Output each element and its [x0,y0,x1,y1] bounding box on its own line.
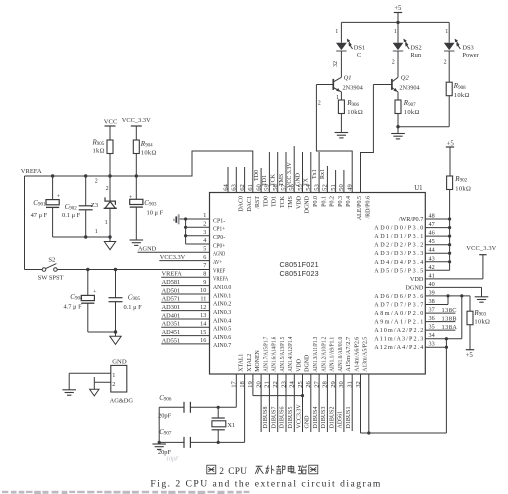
wire stub pin 64 [227,167,229,193]
svg-text:AIN1.5/A13/P1.5: AIN1.5/A13/P1.5 [280,337,286,372]
U1 pin 38 AD7/D7/P3.7 [374,298,434,309]
U1 pin 26 AIN1.3/A11/P1.3 [305,337,319,388]
svg-text:AIN0.6: AIN0.6 [213,334,231,341]
ground under GND pin2 [90,389,99,396]
node VCC_3.3V pin 41 VDD [425,245,496,279]
svg-text:46: 46 [429,230,435,237]
svg-text:AD571: AD571 [162,296,181,303]
svg-text:VCC3.3V: VCC3.3V [160,254,186,261]
svg-text:4.7 μ F: 4.7 μ F [64,303,83,310]
svg-text:DAC1: DAC1 [247,196,253,212]
svg-text:DS3: DS3 [462,45,473,52]
wire data bus pins 48-42 with pull-up bus [425,189,451,270]
wire Q2 base to ALE stub [361,85,392,193]
svg-text:GND: GND [112,359,127,366]
svg-text:U1: U1 [414,185,422,192]
caption figure title English [150,478,381,489]
U1 pin 44 AD3/D3/P3.3 [374,247,434,258]
U1 pin 3 CP0- [203,229,225,241]
svg-text:2: 2 [95,178,98,184]
resistor R908 10k [446,82,469,127]
resistor R906 10k [336,92,363,133]
power VCC [104,119,118,141]
svg-text:Tx1: Tx1 [312,169,318,179]
svg-text:D1BUS3: D1BUS3 [321,406,327,428]
svg-text:AG&DG: AG&DG [110,398,134,405]
U1 pin 41 VDD [410,272,435,283]
wire bottom rail C901-Z3 [53,235,112,238]
svg-text:1: 1 [394,29,397,35]
svg-text:11: 11 [200,296,206,303]
svg-text:DGND: DGND [305,195,311,213]
svg-text:AN10.0: AN10.0 [213,284,231,291]
svg-text:VCC 3.3V: VCC 3.3V [287,162,293,188]
svg-text:AGND: AGND [138,246,157,253]
svg-text:10kΩ: 10kΩ [474,319,490,326]
wire XTAL2 net horizontal [158,441,245,444]
svg-text:CP0+: CP0+ [213,242,226,249]
svg-text:SW SPST: SW SPST [38,274,64,281]
node D1BUS5 pin 23 [286,374,294,432]
U1 pin 31 A14m/A6/P2.6 [347,337,361,388]
decorative faint showthrough text [166,456,179,462]
node VCC 3.3V pin 56 [287,146,294,193]
svg-text:47: 47 [429,221,435,228]
node AD351 pin 14 [161,321,209,328]
U1 pin 56 VDD [289,184,303,209]
U1 pin 55 DGND [297,184,311,214]
svg-text:VCC_3.3V: VCC_3.3V [122,117,151,124]
svg-text:Power: Power [462,52,479,59]
U1 pin 20 AIN1.7/A15/P1.7 [255,337,269,388]
node AD301 pin 12 [161,304,209,311]
node VREFA pin 8 [161,271,209,278]
svg-text:45: 45 [429,238,435,245]
U1 pin 32 A13m/A5/P2.5 [355,337,369,388]
svg-text:Q2: Q2 [401,75,410,82]
svg-text:10kΩ: 10kΩ [347,109,363,116]
svg-text:P0.2: P0.2 [330,196,336,207]
svg-text:P0.1: P0.1 [321,196,327,207]
svg-text:40: 40 [429,281,435,288]
wire pin 18 XTAL2 to crystal [244,374,246,442]
svg-text:AD551: AD551 [162,337,181,344]
wire DS1 to Q1 [333,51,341,77]
wire pin 33 junction [425,339,448,433]
svg-text:1: 1 [95,229,98,235]
U1 pin 17 XTAL1 [231,354,245,388]
node AD401 pin 13 [161,312,209,319]
svg-text:CP1+: CP1+ [213,226,226,233]
LED DS1 C [335,22,365,59]
svg-text:15: 15 [200,329,206,336]
svg-text:35: 35 [429,324,435,331]
svg-text:ALE/P0.5: ALE/P0.5 [357,196,363,220]
svg-text:AIN1.7/A15/P1.7: AIN1.7/A15/P1.7 [263,337,269,372]
capacitor C901 47uF [31,176,61,237]
svg-text:2: 2 [112,381,115,388]
svg-text:32: 32 [333,61,339,67]
U1 pin 54 P0.0 [305,184,319,207]
svg-text:C: C [357,52,361,59]
U1 pin 1 CP1- [203,212,225,224]
svg-text:GND: GND [305,415,311,429]
svg-text:CP1-: CP1- [213,217,225,224]
wire pin 17 XTAL1 to crystal [235,374,237,407]
svg-text:2: 2 [106,186,109,192]
svg-text:+: + [57,193,61,200]
svg-text:0.1 μ F: 0.1 μ F [62,212,81,219]
svg-text:AIN1.1/A9/P1.1: AIN1.1/A9/P1.1 [330,337,336,372]
U1 pin 21 AIN1.6/A14/P1.6 [264,337,278,388]
ground under GND pin1 [62,390,76,395]
transducer symbol on CP1- [173,214,185,224]
U1 pin 30 A15m/A7/2.7 [338,337,352,388]
svg-text:D1BUS6: D1BUS6 [280,406,286,428]
svg-text:AIN0.5: AIN0.5 [213,326,231,333]
svg-text:48: 48 [429,213,435,220]
wire stub pin 63 [235,167,237,193]
svg-text:36: 36 [429,315,435,322]
resistor R907 10k [395,92,420,134]
node D1BUS4 pin 26 [311,374,319,432]
svg-text:VDD: VDD [296,195,302,209]
U1 pin 23 AIN1.4/A12/P1.4 [280,337,294,388]
svg-text:8: 8 [203,271,206,278]
wire comparator bus pins 1-4 [184,217,210,244]
svg-text:VDD: VDD [297,358,303,372]
U1 pin 7 VREF [203,262,225,274]
wire pin 34 up to DGND net [425,296,462,340]
node GND pin 55 [295,152,302,193]
U1 pin 27 AIN1.2/A10/P1.2 [313,337,327,388]
U1 pin 60 TD0 [255,184,269,207]
svg-text:2N3904: 2N3904 [343,85,364,92]
svg-text:13: 13 [200,312,206,319]
svg-text:42: 42 [429,264,435,271]
ground below C905 [110,332,121,344]
wire VREF net to pin 7 [57,268,209,271]
U1 pin 15 AIN0.6 [200,329,231,341]
U1 pin 50 P0.4 [338,184,352,207]
svg-text:Z3: Z3 [91,202,99,209]
svg-text:AIN0.4: AIN0.4 [213,317,231,324]
U1 pin 57 TMS [280,184,294,209]
svg-text:TD1: TD1 [272,196,278,207]
power +5 LED rail [394,5,402,22]
svg-text:C8051F023: C8051F023 [280,269,319,278]
node AGND pin 5 [138,246,210,253]
svg-text:4: 4 [203,237,206,244]
node 138B pin 36 [425,315,457,322]
svg-text:AIN0.3: AIN0.3 [213,309,231,316]
U1 pin 24 VDD [289,358,303,388]
node VREFA label [21,168,42,175]
U1 pin 37 A8m/A0/P2.0 [374,307,434,318]
svg-text:AD401: AD401 [162,312,181,319]
svg-text:DS2: DS2 [410,45,421,52]
decorative cut-off text row at page bottom [2,491,249,494]
svg-text:A10m/A2/P2.2: A10m/A2/P2.2 [374,328,423,334]
U1 pin 29 AIN1.0/A8/01.0 [330,337,344,388]
node TCK pin 58 [271,152,278,193]
svg-text:/WR/P0.7: /WR/P0.7 [399,216,424,223]
svg-text:10pF: 10pF [166,456,179,462]
wire bottom stub to 433 rail [367,374,370,435]
LED DS2 Run [393,22,422,59]
svg-text:2: 2 [203,221,206,228]
node VCC3.3V pin 6 [159,254,209,261]
svg-text:TD0: TD0 [263,196,269,207]
U1 pin 4 CP0+ [203,237,225,249]
power +5 below R903 [466,325,475,360]
node D1BUS3 pin 27 [319,374,327,432]
svg-text:VDD: VDD [410,276,424,283]
node TD1 pin 59 [262,152,269,193]
svg-text:AGND: AGND [213,251,226,258]
svg-text:7: 7 [203,262,206,269]
svg-text:A11m/A3/P2.3: A11m/A3/P2.3 [374,337,423,343]
svg-text:1: 1 [445,29,448,35]
wire RST route to pin 61 [136,151,253,193]
ground below C903 [130,240,144,245]
svg-text:D1BUS5: D1BUS5 [288,406,294,428]
connector GND AG&DG [110,359,134,405]
U1 pin 58 TCK [272,184,286,208]
svg-text:14: 14 [200,321,206,328]
node 138A pin 35 [425,324,457,331]
svg-text:20pF: 20pF [158,449,172,456]
svg-text:S2: S2 [48,257,55,264]
wire C904-C905 bottom [88,330,117,333]
capacitor C904 4.7uF [64,270,98,333]
svg-text:TD0: TD0 [254,170,260,181]
wire GND pin2 [94,377,111,389]
svg-text:AIN0.2: AIN0.2 [213,301,231,308]
resistor R905 1k [92,139,114,177]
U1 pin 35 A10m/A2/P2.2 [374,324,434,335]
svg-text:CPU: CPU [228,467,247,477]
svg-text:/RD/P0.6: /RD/P0.6 [366,196,372,219]
node Tx1 pin 53 [312,152,319,193]
U1 pin 47 AD0/D0/P3.0 [374,221,434,232]
transistor Q1 2N3904 [333,75,363,92]
power VCC_3.3V [122,117,151,140]
svg-text:1: 1 [112,372,115,379]
svg-text:DAC0: DAC0 [239,196,245,212]
node AD451 pin 15 [161,329,209,336]
svg-text:TD1: TD1 [262,175,268,186]
node GND pin 25 [303,374,311,432]
U1 pin 51 P0.3 [330,184,344,207]
svg-text:6: 6 [203,254,206,261]
U1 pin 52 P0.2 [322,184,336,207]
svg-text:10kΩ: 10kΩ [455,186,471,193]
svg-text:A13m/A5/P2.5: A13m/A5/P2.5 [363,337,369,372]
node AD581 pin 9 [161,279,209,286]
capacitor C902 0.1uF [62,176,93,237]
U1 pin 9 AN10.0 [203,279,231,291]
diode zener Z3 [91,176,117,237]
svg-text:AD301: AD301 [162,304,181,311]
svg-text:DGND: DGND [405,284,423,291]
svg-text:12: 12 [200,304,206,311]
U1 pin 62 DAC1 [239,184,253,211]
node AD571 pin 11 [161,296,209,303]
node TD0 pin 60 [254,168,261,193]
svg-text:GND: GND [295,172,301,186]
svg-text:138B: 138B [442,315,457,322]
svg-text:1: 1 [335,29,338,35]
svg-text:43: 43 [429,255,435,262]
svg-text:VCC: VCC [104,119,118,126]
svg-text:VREFA: VREFA [21,168,42,175]
crystal X1 [212,407,236,442]
svg-text:44: 44 [429,247,435,254]
caption figure title Chinese [207,465,318,477]
svg-text:10 μ F: 10 μ F [147,210,164,217]
node Rx1 pin 52 [320,166,327,193]
svg-text:TMS: TMS [279,174,285,186]
power +5 above R902 [446,141,455,176]
wire pin 39 to R903 [425,294,470,311]
wire VREFA left vertical [25,176,43,270]
svg-text:47 μ F: 47 μ F [31,212,48,219]
svg-text:AIN1.3/A11/P1.3: AIN1.3/A11/P1.3 [313,337,319,372]
U1 pin 39 AD6/D6/P3.6 [374,289,434,300]
wire pin 32 to pin 33 net [361,374,447,433]
svg-text:2: 2 [219,467,224,477]
resistor R903 10k [467,309,490,326]
svg-text:AD561: AD561 [338,411,344,429]
svg-text:138C: 138C [442,307,457,314]
svg-text:P0.4: P0.4 [346,196,352,207]
svg-text:2: 2 [392,60,395,66]
svg-text:P0.0: P0.0 [313,196,319,207]
capacitor C903 10uF [129,176,164,240]
svg-text:5: 5 [203,246,206,253]
svg-text:38: 38 [429,298,435,305]
node D1BUS2 pin 28 [327,374,335,432]
LED DS3 Power [444,22,480,59]
svg-text:10kΩ: 10kΩ [454,92,470,99]
svg-text:AD351: AD351 [162,321,181,328]
U1 pin 10 AIN0.1 [200,287,231,299]
ground below Z3 [104,237,115,250]
U1 pin 25 DGND [297,354,311,388]
node D1BUS8 pin 20 [261,374,269,432]
svg-text:A12m/A4/P2.4: A12m/A4/P2.4 [374,345,423,351]
ground pin 40 DGND [425,287,488,302]
svg-text:TMS: TMS [288,196,294,208]
svg-text:XTAL2: XTAL2 [247,354,253,372]
U1 pin 40 DGND [405,281,434,292]
svg-text:37: 37 [429,307,435,314]
svg-text:C8051F021: C8051F021 [280,260,319,269]
svg-text:+: + [93,288,97,295]
U1 pin 28 AIN1.1/A9/P1.1 [322,337,336,388]
U1 pin 43 AD4/D4/P3.4 [374,255,434,266]
IC U1 microcontroller C8051F021/C8051F023 body [210,185,426,374]
wire VREFA rail [25,174,139,177]
svg-text:3: 3 [203,229,206,236]
svg-text:TX: TX [304,177,310,186]
wire R908 to ground net [398,126,449,128]
U1 pin 5 AGND [203,246,225,258]
svg-text:AIN1.6/A14/P1.6: AIN1.6/A14/P1.6 [272,337,278,372]
U1 pin 19 MONEN [247,349,261,387]
resistor R904 10k [133,140,156,176]
svg-text:39: 39 [429,289,435,296]
svg-text:10: 10 [200,287,206,294]
wire DS3 to R908 [444,51,450,82]
svg-text:AD581: AD581 [162,279,181,286]
svg-text:A14m/A6/P2.6: A14m/A6/P2.6 [354,337,360,372]
node D1BUS1 pin 30 [344,374,352,432]
U1 pin 8 VREFA [203,271,228,283]
svg-text:Q1: Q1 [344,75,352,82]
wire Q1 base to pin 49 [316,85,352,193]
svg-text:D1BUS4: D1BUS4 [313,406,319,428]
wire stub pin 31 [351,374,353,431]
svg-text:10kΩ: 10kΩ [141,150,157,157]
U1 pin 48 /WR/P0.7 [399,213,435,224]
svg-text:16: 16 [200,337,206,344]
node TX pin 54 [304,152,311,193]
svg-text:2N3904: 2N3904 [399,85,420,92]
U1 pin 42 AD5/D5/P3.5 [374,264,434,275]
svg-text:AIN0.1: AIN0.1 [213,292,231,299]
svg-text:/RST: /RST [255,196,261,209]
U1 pin 53 P0.1 [313,184,327,207]
U1 pin 2 CP1+ [203,221,225,233]
svg-text:D1BUS7: D1BUS7 [271,406,277,428]
svg-text:Rx1: Rx1 [320,169,326,179]
node 138C pin 37 [425,307,457,314]
svg-text:AIN1.0/A8/01.0: AIN1.0/A8/01.0 [338,337,344,372]
svg-text:D1BUS8: D1BUS8 [263,406,269,428]
svg-text:VREFA: VREFA [213,276,229,283]
svg-text:A15m/A7/2.7: A15m/A7/2.7 [346,337,352,372]
capacitor C905 0.1uF [109,270,143,333]
node AD561 pin 29 [336,374,344,432]
svg-text:9: 9 [203,279,206,286]
capacitor C907 20pF [158,428,191,456]
wire DS2 to Q2 [392,51,398,77]
svg-text:0.1 μ F: 0.1 μ F [124,304,143,311]
svg-text:VREFA: VREFA [162,271,183,278]
U1 pin 13 AIN0.4 [200,312,231,324]
node TMS pin 57 [279,152,286,193]
svg-text:AIN1.2/A10/P1.2: AIN1.2/A10/P1.2 [321,337,327,372]
svg-text:P0.3: P0.3 [338,196,344,207]
U1 pin 14 AIN0.5 [200,321,231,333]
svg-text:D1BUS2: D1BUS2 [329,406,335,428]
wire stub pin 62 [244,167,246,193]
ground below R906 [335,133,349,138]
node AD501 pin 10 [161,287,209,294]
U1 pin 59 TD1 [264,184,278,207]
svg-text:AD501: AD501 [162,287,181,294]
capacitor C906 20pF [158,394,190,420]
svg-text:33: 33 [429,341,435,348]
U1 pin 48 label /RD/P0.6 at top corner [366,196,372,219]
wire +5 rail [341,21,449,24]
svg-text:VCC_3.3V: VCC_3.3V [466,245,496,252]
U1 pin 63 DAC0 [231,184,245,212]
svg-text:1: 1 [203,212,206,219]
U1 pin 61 /RST [247,184,261,208]
